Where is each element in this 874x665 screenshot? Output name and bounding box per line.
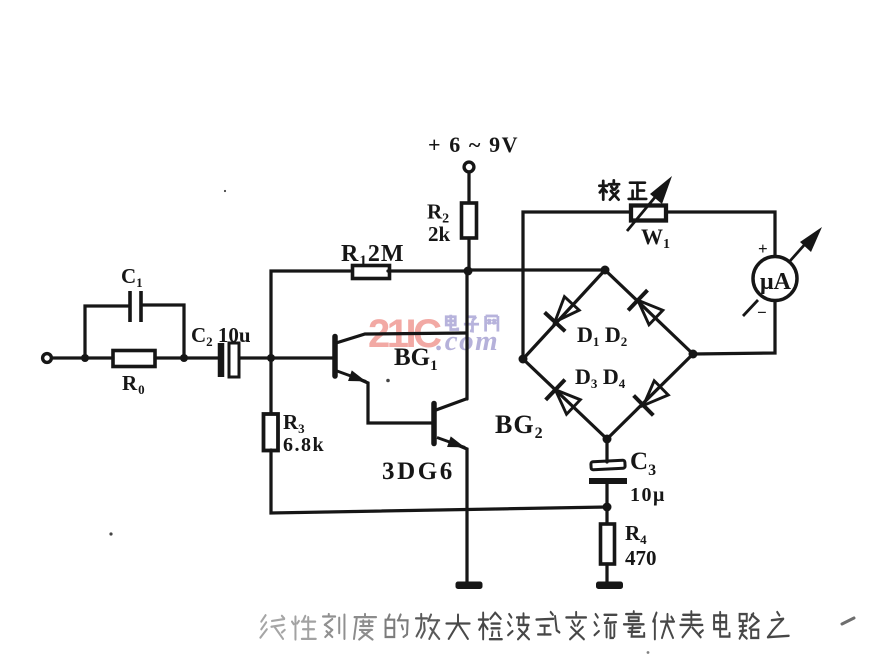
svg-text:−: − [757,303,767,322]
svg-text:R4: R4 [625,521,647,547]
svg-text:BG2: BG2 [495,410,544,442]
svg-text:C2 10u: C2 10u [191,323,251,349]
svg-text:R3: R3 [283,410,305,436]
svg-text:R0: R0 [122,371,146,397]
svg-text:6.8k: 6.8k [283,434,325,456]
svg-text:D1 D2: D1 D2 [577,322,627,349]
svg-text:C3: C3 [630,448,656,479]
svg-text:10μ: 10μ [630,484,666,506]
svg-text:+: + [758,239,768,258]
svg-text:μA: μA [760,269,792,295]
svg-text:+ 6 ~ 9V: + 6 ~ 9V [428,132,519,157]
svg-text:2k: 2k [428,222,451,246]
svg-text:C1: C1 [121,264,143,290]
svg-text:D3 D4: D3 D4 [575,364,626,391]
svg-text:3DG6: 3DG6 [382,458,455,485]
svg-text:W1: W1 [641,224,670,252]
svg-text:470: 470 [625,546,657,570]
svg-text:R12M: R12M [341,241,405,269]
